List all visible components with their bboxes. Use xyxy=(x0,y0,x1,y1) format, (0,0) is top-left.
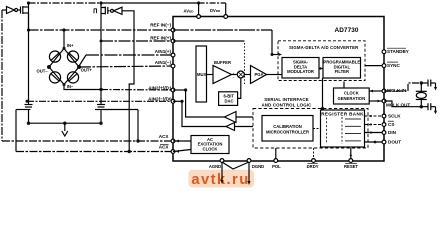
pin RESET xyxy=(349,159,353,163)
node: rail junction T2 xyxy=(99,1,102,4)
svg-text:REF IN(−): REF IN(−) xyxy=(150,23,171,28)
strain gauge G2 top-right xyxy=(67,51,78,62)
wire Q2 source to rail / drain down (node B) xyxy=(100,3,102,103)
wire D0 driver xyxy=(173,100,182,102)
wire REF IN(+) to DAC (dotted) xyxy=(173,40,245,42)
ground arrow DGND xyxy=(248,162,250,182)
node: rail dot right xyxy=(99,122,102,125)
pin AIN1(-) xyxy=(171,64,175,68)
svg-text:SCLK: SCLK xyxy=(388,114,401,119)
svg-text:SERIAL INTERFACE: SERIAL INTERFACE xyxy=(264,97,309,102)
pin AIN2(-)/D0 xyxy=(171,99,175,103)
buffer D0 triangle xyxy=(226,123,235,131)
svg-text:CS: CS xyxy=(388,122,394,127)
summing junction xyxy=(237,71,244,78)
wire AIN2(+)/D1 row xyxy=(101,89,173,92)
wire PGA to modulator xyxy=(267,74,283,76)
AC excitation clock box xyxy=(191,136,229,154)
overlines for active-low labels xyxy=(160,48,406,163)
svg-text:DVDD: DVDD xyxy=(210,8,221,13)
node: bridge top riser junction xyxy=(62,28,65,31)
wire ACX output arrow xyxy=(173,140,191,142)
wire ACX to inverter U1 input (left edge vertical) xyxy=(1,10,3,141)
sigma-delta modulator box xyxy=(282,58,319,79)
pin ACX xyxy=(171,139,175,143)
pin REF IN(-) xyxy=(171,28,175,32)
crystal circuit: MCLK IN wire xyxy=(384,83,421,91)
ground arrow C2 xyxy=(435,107,437,112)
svg-text:MCLK IN: MCLK IN xyxy=(387,88,407,93)
svg-text:DRDY: DRDY xyxy=(307,164,319,169)
strain gauge G1 top-left xyxy=(49,51,60,62)
pin REF IN(+) xyxy=(171,39,175,43)
wire D1 driver xyxy=(173,89,186,91)
svg-text:AIN1(+): AIN1(+) xyxy=(155,49,172,54)
supply rail +5V top xyxy=(29,2,102,4)
wire DOUT internal xyxy=(365,141,385,143)
wire filter down to serial logic xyxy=(322,78,324,109)
transistor Q2 PMOS right xyxy=(107,7,109,14)
wire bridge bottom to node B xyxy=(64,86,101,90)
svg-text:PGA: PGA xyxy=(255,72,264,77)
wire bridge top riser xyxy=(63,30,65,49)
wire DRDY riser xyxy=(313,148,315,161)
crystal Y1 xyxy=(420,83,422,91)
pin MCLK IN xyxy=(382,89,386,93)
pin AGND xyxy=(220,159,224,163)
wire clock gen to dashed box xyxy=(343,82,345,89)
svg-text:IN−: IN− xyxy=(67,84,74,89)
pin AIN2(+)/D1 xyxy=(171,88,175,92)
wire ACX' row xyxy=(16,151,173,153)
svg-text:AGND: AGND xyxy=(209,164,221,169)
pin DIN xyxy=(382,131,386,135)
node bridge top IN+ xyxy=(63,47,66,50)
svg-text:AVDD: AVDD xyxy=(184,9,195,14)
svg-text:BUFFER: BUFFER xyxy=(214,60,231,65)
svg-text:OUT+: OUT+ xyxy=(81,68,93,73)
pin DRDY xyxy=(312,159,316,163)
wire AGND/DGND V tie xyxy=(222,162,249,169)
node: crystal top xyxy=(420,81,423,84)
buffer D1 triangle xyxy=(225,112,237,123)
svg-text:MUX: MUX xyxy=(197,72,207,77)
pin AIN1(+) xyxy=(171,53,175,57)
capacitor C2 xyxy=(421,106,428,108)
svg-text:AIN1(−): AIN1(−) xyxy=(155,60,172,65)
wire MCLK OUT to crystal xyxy=(384,101,421,107)
MUX box xyxy=(196,46,207,102)
wire REF IN(-) into modulator xyxy=(173,29,272,31)
svg-text:CLOCK: CLOCK xyxy=(203,146,218,151)
programmable digital filter box xyxy=(323,58,361,79)
wire inverter U2 input riser to ACX' row xyxy=(122,11,134,152)
svg-text:CLOCK: CLOCK xyxy=(344,91,359,96)
register bank inner dashes xyxy=(326,118,328,145)
watermark avtk.ru xyxy=(189,170,255,188)
pin DVDD xyxy=(224,15,228,19)
svg-text:MODULATOR: MODULATOR xyxy=(287,69,314,74)
wire Q3 gate to ACX' riser xyxy=(16,109,23,111)
svg-text:−: − xyxy=(233,76,235,80)
pin MCLK OUT xyxy=(382,99,386,103)
svg-text:DGND: DGND xyxy=(252,164,264,169)
register bank box xyxy=(321,110,365,147)
transistor Q3 NMOS left xyxy=(28,98,30,104)
wire Q1 source to rail / drain down (node A) xyxy=(28,3,30,30)
svg-text:OUT−: OUT− xyxy=(37,69,49,74)
node bridge right OUT+ xyxy=(77,65,81,69)
svg-text:POL: POL xyxy=(272,164,281,169)
svg-text:RESET: RESET xyxy=(344,164,358,169)
pin SYNC xyxy=(382,64,386,68)
pin SCLK xyxy=(382,114,386,118)
PGA amp triangle xyxy=(251,66,267,84)
wire SYNC internal xyxy=(365,65,384,67)
strain gauge G3 bottom-left xyxy=(49,72,60,83)
svg-text:CALIBRATION: CALIBRATION xyxy=(273,124,302,129)
svg-text:GENERATION: GENERATION xyxy=(337,96,365,101)
wire SCLK internal xyxy=(365,115,385,117)
svg-text:MCLK OUT: MCLK OUT xyxy=(386,103,410,108)
bridge load cell: diamond arms xyxy=(49,49,64,68)
svg-text:AIN2(−)/D0: AIN2(−)/D0 xyxy=(148,96,172,101)
wire summer to PGA xyxy=(244,74,250,76)
svg-text:DIN: DIN xyxy=(388,130,397,135)
wire MUX to buffer xyxy=(207,74,214,76)
svg-text:SYNC: SYNC xyxy=(387,63,400,68)
chip outline AD7730 xyxy=(173,17,384,162)
ground arrow C1 xyxy=(435,83,437,88)
node A dot REF IN(-) row xyxy=(27,28,30,31)
svg-text:ACX: ACX xyxy=(159,134,170,139)
sigma-delta dashed box xyxy=(278,41,365,81)
arrow modulator to filter xyxy=(319,68,323,70)
svg-text:FILTER: FILTER xyxy=(335,69,349,74)
svg-text:REGISTER BANK: REGISTER BANK xyxy=(321,111,364,116)
wire cal to register bank xyxy=(313,128,321,130)
pin DOUT xyxy=(382,140,386,144)
pin DGND xyxy=(247,159,251,163)
wire H-bridge source rail xyxy=(29,122,102,124)
node: ACX row junction Q4 riser xyxy=(136,139,139,142)
wire RESET riser xyxy=(350,148,352,161)
wire node A vertical xyxy=(28,13,30,103)
node B dot REF IN(+) row xyxy=(100,40,103,43)
calibration microcontroller box xyxy=(262,116,313,142)
svg-text:+: + xyxy=(233,71,235,75)
svg-text:AD7730: AD7730 xyxy=(335,27,359,34)
wire AIN1(+) row with diagonal from OUT+ xyxy=(79,55,86,66)
wire MCLK OUT internal arrow xyxy=(369,100,384,102)
strain gauge G4 bottom-right xyxy=(67,72,78,83)
svg-text:AND CONTROL LOGIC: AND CONTROL LOGIC xyxy=(261,102,312,107)
svg-text:MICROCONTROLLER: MICROCONTROLLER xyxy=(266,130,309,135)
node: rail junction T1 xyxy=(27,1,30,4)
svg-text:ACX: ACX xyxy=(159,145,170,150)
wire MCLK IN internal arrow xyxy=(369,90,384,92)
svg-text:SIGMA-DELTA A/D CONVERTER: SIGMA-DELTA A/D CONVERTER xyxy=(289,45,359,50)
node bridge left OUT- xyxy=(47,65,51,69)
wire REF IN(-) row xyxy=(29,29,174,31)
node: ACX' row junction U2 riser xyxy=(128,150,131,153)
svg-text:REF IN(+): REF IN(+) xyxy=(150,36,171,41)
node: AIN2(-)/D0 on node A xyxy=(26,100,29,103)
wire buffer to summer xyxy=(232,74,238,76)
node bridge bottom IN- xyxy=(63,83,66,86)
node: bridge bottom / node B junction xyxy=(99,88,102,91)
node: rail junction AVDD xyxy=(197,1,200,4)
svg-text:IN+: IN+ xyxy=(67,43,74,48)
svg-text:AIN2(+)/D1: AIN2(+)/D1 xyxy=(148,85,172,90)
wire AIN2(-)/D0 row xyxy=(27,100,173,102)
wire CS internal xyxy=(365,124,385,126)
pin STANDBY xyxy=(382,50,386,54)
pin POL xyxy=(274,159,278,163)
wire REF IN(+) row xyxy=(101,40,173,42)
transistor Q1 PMOS left xyxy=(20,7,22,14)
transistor Q4 NMOS right xyxy=(100,98,102,104)
svg-text:DAC: DAC xyxy=(225,99,234,104)
ground arrow AGND xyxy=(221,162,223,181)
wire DVDD riser xyxy=(225,3,227,17)
wire Q4 gate line to ACX riser xyxy=(103,109,138,111)
pin AVDD xyxy=(197,15,201,19)
6-BIT DAC box xyxy=(219,92,238,106)
ground arrow below bridge rail xyxy=(64,123,66,131)
node: crystal bottom xyxy=(420,105,423,108)
wire AIN1(-) row from OUT+ xyxy=(79,66,173,67)
clock generation box xyxy=(334,88,370,104)
wire ACX' output arrow xyxy=(173,150,191,152)
buffer amp triangle xyxy=(213,66,232,84)
wire ACX row xyxy=(2,140,173,142)
capacitor C1 xyxy=(421,82,428,84)
node: rail dot left xyxy=(27,122,30,125)
svg-text:STANDBY: STANDBY xyxy=(387,49,409,54)
wire summer down to DAC xyxy=(238,78,241,98)
calibration dashed box xyxy=(253,109,368,149)
wire DIN internal xyxy=(365,132,385,134)
inverter U1 (drives Q1 gate) xyxy=(7,7,15,14)
wire AVDD riser xyxy=(198,3,200,17)
wire POL riser xyxy=(275,148,277,161)
svg-text:DOUT: DOUT xyxy=(388,140,401,145)
pin ACX' xyxy=(171,150,175,154)
node: rail dot mid xyxy=(63,122,66,125)
pin CS xyxy=(382,123,386,127)
inverter U2 (drives Q2 gate) xyxy=(114,7,122,14)
